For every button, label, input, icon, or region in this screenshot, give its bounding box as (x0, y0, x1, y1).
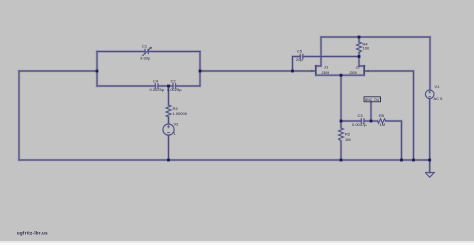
wire rect top left segment (97, 51, 145, 53)
node rail V1 (428, 159, 431, 162)
capacitor C4 on rect bottom left (155, 83, 158, 89)
ground (425, 173, 434, 178)
capacitor C5 compensation (300, 54, 303, 60)
wire main horizontal to gate (200, 70, 315, 72)
wire rect bottom segment a (97, 85, 155, 87)
svg-text:C1: C1 (142, 44, 148, 49)
wire halo layer (19, 37, 430, 173)
wire rect bottom segment b (158, 85, 173, 87)
svg-text:ugfritz-lbr.us: ugfritz-lbr.us (17, 230, 48, 235)
svg-text:1M: 1M (345, 137, 351, 142)
node BNC_OUT label (364, 97, 381, 102)
node comp-cap tap (291, 70, 294, 73)
wire source branch down to node (340, 75, 342, 128)
svg-text:BNC_OUT: BNC_OUT (365, 98, 381, 102)
wire top rail (321, 36, 430, 38)
wire middle branch down (168, 86, 170, 105)
capacitor C2 on rect bottom right (173, 83, 176, 89)
wire comp-cap to drain node (303, 56, 359, 58)
node rect-right (199, 70, 202, 73)
wire to ground (429, 160, 431, 173)
svg-text:0.0025µ: 0.0025µ (167, 87, 182, 92)
resistor R3 (166, 105, 171, 117)
capacitor C3 (361, 118, 364, 124)
node rect-left (96, 70, 99, 73)
wire left vertical (18, 71, 20, 160)
wire input left horizontal (19, 70, 97, 72)
capacitor C1 trimmer on rect top (142, 47, 151, 56)
wire R4 top lead (358, 37, 360, 42)
svg-text:C3: C3 (358, 113, 364, 118)
wire V1 top (429, 37, 431, 90)
wire rect right vertical (199, 52, 201, 87)
node rail RC (400, 159, 403, 162)
resistor R2 (339, 128, 344, 141)
svg-text:100: 100 (363, 46, 370, 51)
node rail gate (412, 159, 415, 162)
wire comp-cap up and right (293, 57, 301, 72)
wire V1 bottom (429, 99, 431, 161)
wire R5 to right corner down (386, 121, 402, 160)
node bnc stem (370, 120, 373, 123)
node caps-mid (167, 85, 170, 88)
resistor R5 (378, 119, 386, 123)
svg-text:J309: J309 (349, 71, 357, 75)
node out (340, 120, 343, 123)
voltage source V1 (425, 90, 434, 99)
node rail V2 (167, 159, 170, 162)
junction node dots (96, 36, 431, 162)
wire R2 bottom lead (340, 141, 342, 160)
svg-text:1.00000: 1.00000 (173, 111, 188, 116)
wire rect top right segment (148, 51, 200, 53)
node common source (340, 74, 343, 77)
svg-text:3-30p: 3-30p (140, 56, 151, 61)
svg-text:C5: C5 (297, 49, 303, 54)
wire out node to cap C3 (341, 120, 361, 122)
wire J1 drain up (316, 37, 321, 66)
voltage source V2 (163, 124, 174, 135)
wire R4 bottom lead (358, 53, 360, 57)
wire J2 gate right and down (364, 71, 413, 160)
svg-text:20p: 20p (296, 57, 303, 62)
svg-text:V1: V1 (435, 84, 441, 89)
node R4 bottom (358, 55, 361, 58)
svg-text:V2: V2 (174, 122, 180, 127)
node top rail R4 (358, 36, 361, 39)
svg-text:C4: C4 (153, 79, 159, 84)
svg-text:C2: C2 (171, 79, 177, 84)
wire middle branch below V2 (168, 135, 170, 160)
transistor J2 (349, 65, 369, 76)
resistor R4 (357, 42, 362, 53)
white bottom strip (0, 241, 474, 245)
svg-text:0.0047µ: 0.0047µ (352, 122, 367, 127)
transistor J1 (311, 65, 329, 76)
wire BNC stem (370, 102, 372, 121)
svg-text:AC 5: AC 5 (434, 96, 444, 101)
node rail R2 (340, 159, 343, 162)
wire common source (316, 74, 364, 76)
svg-text:J309: J309 (322, 71, 330, 75)
svg-text:R5: R5 (379, 113, 385, 118)
svg-text:0.0025µ: 0.0025µ (150, 87, 165, 92)
wire bottom ground rail (19, 159, 430, 161)
svg-text:R2: R2 (345, 131, 351, 136)
wire middle branch between R3 and V2 (168, 117, 170, 124)
wire C3 to R5 (364, 120, 378, 122)
wire J2 drain up (359, 57, 364, 67)
wire rect left vertical (96, 52, 98, 87)
wire rect bottom segment c (176, 85, 200, 87)
svg-text:1M: 1M (380, 122, 386, 127)
